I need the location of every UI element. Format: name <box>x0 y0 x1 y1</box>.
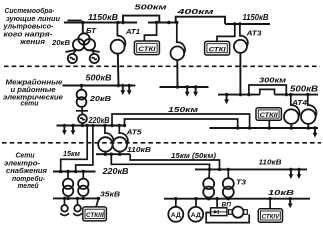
DC motor M <box>232 207 243 218</box>
bus 110kV bottom <box>195 168 307 170</box>
node: tap STK-I a <box>155 21 158 24</box>
box STK-I b <box>205 41 230 55</box>
wire bus to middle AT with curl <box>177 23 185 54</box>
line 500km bracket <box>123 16 159 23</box>
svg-text:снабжения: снабжения <box>6 167 47 175</box>
svg-text:СТКII: СТКII <box>260 112 278 119</box>
bus 1150kV middle segment <box>148 22 178 24</box>
svg-text:300км: 300км <box>259 78 287 85</box>
svg-text:БТ: БТ <box>86 28 97 35</box>
autotransformer AT4 <box>284 109 299 124</box>
wire middle AT down to 500kV middle bus <box>176 60 178 87</box>
wire AT5 to 110kV bus <box>104 152 106 155</box>
lamp load L1 <box>64 198 66 205</box>
dashed separator 1 <box>4 65 320 67</box>
svg-text:20кВ: 20кВ <box>51 40 70 47</box>
bus 1150kV right segment <box>225 23 270 25</box>
wire DC loop <box>206 213 249 223</box>
wire 220kV bus to AT5 coil 2 with curl <box>119 126 128 145</box>
box STK-I a <box>134 41 159 55</box>
line 400km bracket <box>176 17 225 24</box>
wire 500kV to AT4 coil 1 with curl <box>291 95 300 117</box>
svg-text:жения: жения <box>19 39 45 46</box>
autotransformer AT5 <box>98 137 112 151</box>
wire AT4 to 220kV right bus <box>290 124 292 128</box>
svg-text:500км: 500км <box>135 5 168 12</box>
lamp load L2 <box>77 198 79 205</box>
svg-text:СТКIII: СТКIII <box>86 212 104 219</box>
generator G1 <box>68 54 77 63</box>
load arrows on 110kV bottom bus <box>289 169 294 179</box>
svg-text:АТ4: АТ4 <box>291 100 307 107</box>
line 15km circuit 2 <box>76 126 93 172</box>
bus 1150kV left segment <box>64 22 137 24</box>
line 15km(50km) circuit 2 <box>111 154 209 169</box>
svg-text:220кВ: 220кВ <box>88 116 110 125</box>
line 150km circuit 2 <box>125 119 238 128</box>
load arrows on 220kV bus <box>62 126 67 136</box>
svg-text:Системообра-: Системообра- <box>5 7 56 15</box>
wire AT3 down to 500kV right bus <box>239 53 241 95</box>
wire to STK-III <box>96 198 99 207</box>
transformer 500/20 (two-winding) <box>77 90 87 100</box>
svg-text:Сети: Сети <box>16 153 36 160</box>
svg-text:ультровысо-: ультровысо- <box>2 24 54 31</box>
svg-text:АТ1: АТ1 <box>125 29 140 36</box>
node taps on 500kV left bus <box>80 84 83 87</box>
left text: interregional networks <box>3 79 63 108</box>
wire 10kV to rectifier VP <box>216 199 218 208</box>
svg-text:15км (50км): 15км (50км) <box>171 153 217 160</box>
wire to STK-I b <box>217 24 235 42</box>
node: 500km line terminal on bus 1 <box>121 21 124 24</box>
autotransformer AT3 <box>234 40 247 53</box>
node: STK-III tap on 35kV bus <box>97 197 100 200</box>
svg-text:150км: 150км <box>168 107 199 114</box>
wire BT to generator G2 <box>91 49 94 54</box>
load arrows on 500kV left bus <box>120 86 125 96</box>
wire 110kV to T3 column 1 <box>208 169 211 178</box>
bus 110kV under AT5 <box>96 153 130 155</box>
wire bus to AT1 with curl <box>117 23 125 47</box>
transformer BT (three-winding) <box>73 33 95 50</box>
left text: consumer supply networks <box>4 153 47 191</box>
svg-text:1150кВ: 1150кВ <box>243 13 269 22</box>
svg-text:1150кВ: 1150кВ <box>88 13 118 22</box>
load arrow on 500kV right bus <box>225 93 228 96</box>
bus 220kV left <box>57 125 126 127</box>
svg-text:Т3: Т3 <box>236 180 246 187</box>
thyristor symbol in VP <box>214 210 218 214</box>
line 150km circuit 1 <box>112 114 250 128</box>
bus 500kV left <box>63 85 136 87</box>
svg-text:Межрайонные: Межрайонные <box>6 79 63 87</box>
line 15km circuit 1 <box>61 126 87 172</box>
generator G2 <box>90 54 99 63</box>
svg-text:телей: телей <box>18 182 40 190</box>
svg-text:СТКI: СТКI <box>138 46 155 53</box>
left text: system-forming UHV lines <box>2 7 60 46</box>
svg-text:АД: АД <box>171 212 181 219</box>
svg-text:потреби-: потреби- <box>12 175 46 183</box>
node: tap AT3 <box>238 22 241 25</box>
autotransformer AT1 <box>111 40 125 54</box>
wire 110kV to T3 column 2 <box>227 169 229 178</box>
svg-text:кого напря-: кого напря- <box>4 31 54 38</box>
induction motor AD1 <box>175 199 177 207</box>
svg-text:400км: 400км <box>176 9 215 16</box>
wire STK-II to 220kV right bus <box>268 120 270 128</box>
box STK-II <box>256 108 281 121</box>
dashed separator 2 <box>2 142 321 144</box>
svg-text:35кВ: 35кВ <box>100 192 120 199</box>
wire to STK-IV <box>269 199 271 209</box>
svg-text:20кВ: 20кВ <box>89 96 111 103</box>
load arrows on 500kV middle bus <box>185 87 190 97</box>
svg-text:СТКIV: СТКIV <box>262 214 280 221</box>
svg-text:110кВ: 110кВ <box>127 147 151 154</box>
load arrow on 220kV right bus <box>313 128 318 138</box>
transformer T3 column 2 <box>223 178 234 189</box>
terminal tab motor right <box>244 210 248 215</box>
nodes on 220kV bus <box>63 124 66 127</box>
svg-text:зующие линии: зующие линии <box>6 16 61 23</box>
node: tap AT1 <box>116 21 119 24</box>
wire through VP <box>212 211 227 213</box>
bus 10kV <box>164 198 310 200</box>
breaker tick G1 <box>65 50 75 52</box>
svg-text:10кВ: 10кВ <box>268 190 294 197</box>
node: tap middle AT <box>175 21 178 24</box>
svg-text:АТ5: АТ5 <box>125 130 141 137</box>
bus 500kV right segment A <box>218 94 260 96</box>
svg-text:электро-: электро- <box>4 160 41 167</box>
wire bus to AT3 with curl <box>240 24 248 46</box>
line 300km circuit outer <box>249 85 286 95</box>
node on 1150kV middle bus <box>167 21 170 24</box>
bus 35kV <box>53 197 100 199</box>
bus 220kV right <box>210 127 319 129</box>
wire 500kV to AT4 coil 2 with curl <box>308 95 317 117</box>
wire to district transformer T1 <box>67 172 69 180</box>
wire: doubled stroke at bus 1150kV start <box>68 19 82 21</box>
wire BT to generator G1 <box>73 49 77 54</box>
bus 220kV local left <box>53 171 96 173</box>
svg-text:и районные: и районные <box>11 86 56 94</box>
wire SC to 220kV bus <box>82 123 84 125</box>
wire transformer to SC <box>81 107 83 115</box>
svg-text:АД: АД <box>191 212 201 219</box>
bus 500kV middle <box>160 86 209 88</box>
line 300km circuit inner <box>260 89 275 94</box>
breaker tick G2 <box>90 50 100 52</box>
svg-text:15км: 15км <box>63 151 81 158</box>
load arrow on 10kV bus <box>288 199 293 209</box>
svg-text:220кВ: 220кВ <box>101 167 128 176</box>
bus 500kV right segment B <box>275 94 319 96</box>
svg-text:СТКI: СТКI <box>209 46 226 53</box>
box STK-IV <box>258 209 282 222</box>
node: 300km line terminals <box>247 93 250 96</box>
node: T3 column 2 on 10kV bus <box>227 197 230 200</box>
transformer T2 (two-winding) <box>78 179 88 189</box>
wire bus to BT <box>82 23 84 34</box>
wire to STK-I a <box>144 23 156 42</box>
breaker tick SC <box>76 110 88 112</box>
svg-text:сети: сети <box>21 100 40 107</box>
synchronous condenser SC <box>78 114 87 123</box>
wire T3 to 10kV bus <box>208 198 210 199</box>
node: AT4 taps on 500kV bus <box>289 93 292 96</box>
transformer T1 (two-winding) <box>63 179 73 189</box>
terminal tab VP to motor <box>229 210 233 215</box>
rectifier box VP <box>211 208 227 216</box>
line 15km(50km) circuit 1 <box>130 154 219 169</box>
svg-text:500кВ: 500кВ <box>290 85 318 94</box>
svg-text:АТ3: АТ3 <box>245 31 261 38</box>
svg-text:500кВ: 500кВ <box>86 74 112 83</box>
transformer T3 column 1 <box>203 178 214 189</box>
node AT3 on 500kV right <box>239 93 242 96</box>
wire to district transformer T2 <box>82 172 84 180</box>
induction motor AD2 <box>195 199 197 207</box>
autotransformer AT2 middle <box>171 46 185 60</box>
svg-text:110кВ: 110кВ <box>259 160 282 167</box>
node: tap STK-I b <box>233 22 236 25</box>
wire AT1 down to 500kV bus <box>117 54 120 86</box>
box STK-III <box>83 207 107 221</box>
wire 220kV bus to AT5 coil 1 with curl <box>105 126 114 145</box>
wire 500kV bus to transformer T20 <box>81 86 83 91</box>
node: tap of block transformer <box>81 21 84 24</box>
